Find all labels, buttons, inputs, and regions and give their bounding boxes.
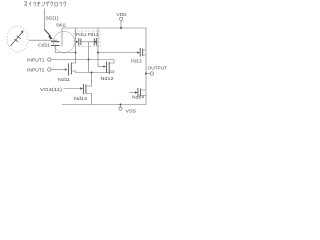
svg-text:OUTPUT: OUTPUT	[148, 65, 168, 70]
svg-text:INPUT1: INPUT1	[27, 58, 45, 63]
svg-text:Nd11: Nd11	[58, 77, 70, 83]
svg-text:Nd12: Nd12	[101, 76, 114, 82]
svg-text:Pd13: Pd13	[131, 59, 142, 65]
svg-text:INPUT2: INPUT2	[27, 68, 45, 73]
svg-text:VSS: VSS	[126, 109, 137, 115]
svg-text:Nd14: Nd14	[132, 95, 144, 101]
svg-text:Pd11 Pd12: Pd11 Pd12	[76, 32, 99, 37]
svg-text:Cd11: Cd11	[38, 43, 50, 49]
svg-text:Nd13: Nd13	[74, 96, 87, 102]
svg-text:VDD: VDD	[117, 12, 128, 18]
svg-text:SW11: SW11	[56, 23, 66, 29]
svg-text:SG(1): SG(1)	[46, 16, 59, 22]
svg-text:VG4(11): VG4(11)	[40, 87, 63, 92]
